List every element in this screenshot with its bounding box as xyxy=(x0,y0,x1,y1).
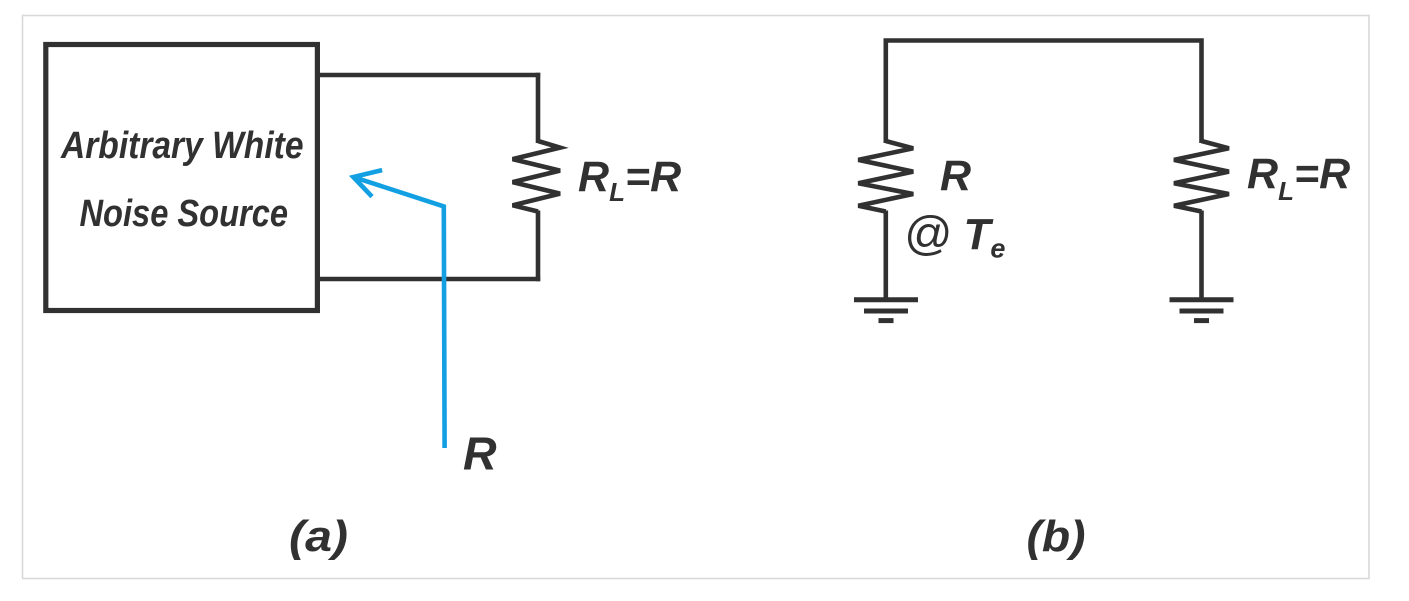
resistor RL (a) xyxy=(513,141,560,212)
svg-text:R: R xyxy=(940,152,971,200)
wire bottom (a) xyxy=(317,277,540,282)
arrow pointing to port (blue) xyxy=(353,170,444,448)
wire right bottom segment (a) xyxy=(536,211,541,282)
svg-text:Arbitrary White: Arbitrary White xyxy=(60,125,303,167)
ground (b left) xyxy=(854,300,918,321)
svg-text:@: @ xyxy=(904,208,952,261)
resistor RL (b) xyxy=(1174,141,1229,212)
wire from resistor RL to ground (b right) xyxy=(1199,211,1204,300)
svg-text:RL=R: RL=R xyxy=(578,153,681,207)
wire right top segment (a) xyxy=(536,73,541,143)
svg-text:R: R xyxy=(463,428,497,480)
wire top (a) xyxy=(317,73,540,78)
svg-text:(a): (a) xyxy=(289,512,348,561)
wire to ground (b left) xyxy=(883,211,888,300)
wire top (b) xyxy=(886,41,1202,144)
noise source box xyxy=(46,45,318,311)
svg-text:(b): (b) xyxy=(1027,512,1086,561)
svg-text:RL=R: RL=R xyxy=(1247,150,1350,206)
resistor R (b) xyxy=(858,141,913,212)
svg-text:Noise Source: Noise Source xyxy=(80,193,289,235)
ground (b right) xyxy=(1170,300,1234,321)
